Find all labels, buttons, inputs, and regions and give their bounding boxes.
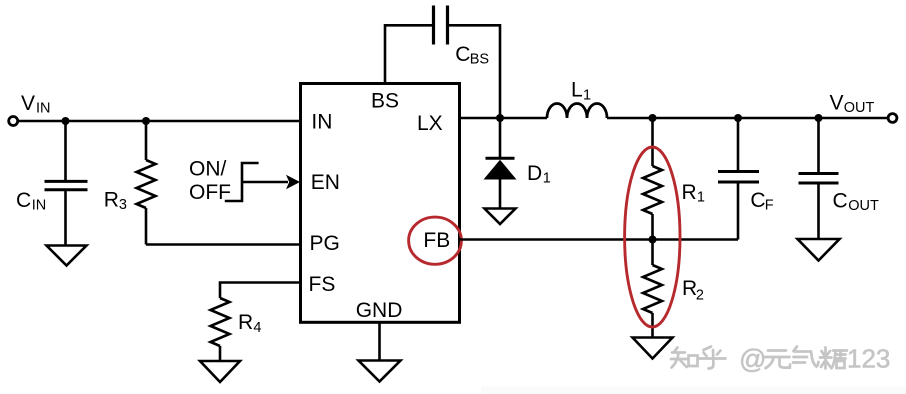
svg-text:1: 1: [583, 88, 591, 104]
svg-text:LX: LX: [417, 112, 443, 135]
svg-text:BS: BS: [470, 52, 489, 68]
svg-text:IN: IN: [32, 198, 47, 214]
wire FB net: [460, 238, 739, 241]
arrow into EN: [242, 175, 300, 189]
svg-text:EN: EN: [311, 171, 340, 194]
label VIN: [21, 92, 51, 117]
bottom-right faint strip: [481, 387, 906, 394]
resistor R3: [137, 121, 156, 245]
wire R3 to PG: [146, 243, 301, 246]
watermark zhihu: [671, 347, 847, 369]
ground under COUT: [798, 239, 840, 261]
svg-text:C: C: [16, 189, 31, 212]
glyph hu: [700, 347, 726, 369]
watermark at and 123: [739, 344, 890, 375]
label COUT: [833, 189, 879, 214]
svg-text:PG: PG: [310, 232, 340, 255]
label VOUT: [830, 92, 875, 117]
terminal VOUT: [888, 114, 897, 123]
red ellipse highlight around R1 R2: [625, 147, 680, 327]
svg-text:FS: FS: [309, 273, 336, 296]
label R3: [104, 188, 127, 213]
svg-text:1: 1: [697, 190, 705, 206]
label L1: [571, 79, 591, 104]
svg-text:123: 123: [847, 344, 890, 374]
node LX/D1/CBS: [496, 114, 504, 122]
svg-text:@: @: [739, 344, 766, 374]
svg-text:2: 2: [696, 287, 704, 303]
label CBS: [455, 43, 489, 67]
red circle highlight around FB: [409, 217, 462, 264]
svg-text:R: R: [104, 188, 119, 211]
svg-text:R: R: [682, 181, 697, 204]
svg-text:V: V: [21, 92, 35, 115]
svg-text:C: C: [750, 189, 765, 212]
wire FS pin: [220, 283, 301, 299]
wire GND pin: [378, 322, 381, 360]
node rail/R1: [649, 114, 657, 122]
IC U1 body: [301, 84, 460, 323]
svg-text:L: L: [571, 79, 583, 102]
svg-text:R: R: [682, 277, 697, 300]
svg-text:V: V: [830, 92, 844, 115]
svg-text:4: 4: [253, 320, 261, 336]
node junction VIN/R3: [142, 117, 150, 125]
glyph zhi: [671, 348, 687, 368]
svg-text:3: 3: [119, 197, 127, 213]
label CF: [750, 189, 773, 214]
glyph yuan: [765, 351, 791, 369]
svg-text:GND: GND: [356, 299, 403, 322]
wire input rail: [18, 120, 301, 123]
svg-text:IN: IN: [311, 111, 332, 134]
node rail/CF: [734, 114, 742, 122]
inductor L1: [547, 104, 607, 119]
ground under D1: [485, 209, 516, 225]
label D1: [527, 162, 551, 187]
label R4: [238, 311, 261, 336]
node rail/COUT: [815, 114, 823, 122]
capacitor CF: [718, 118, 759, 240]
svg-text:C: C: [833, 189, 848, 212]
glyph tang: [820, 348, 847, 369]
capacitor COUT: [799, 118, 839, 239]
svg-text:OUT: OUT: [844, 100, 875, 116]
ground under R4: [200, 361, 240, 382]
node junction VIN/CIN: [62, 117, 70, 125]
svg-text:BS: BS: [371, 90, 399, 113]
ground under R2: [633, 338, 673, 359]
ground under CIN: [47, 246, 87, 266]
resistor R4: [211, 298, 230, 361]
svg-text:OUT: OUT: [848, 198, 879, 214]
label R1: [682, 181, 705, 206]
svg-text:F: F: [765, 198, 774, 214]
svg-text:IN: IN: [36, 101, 51, 117]
terminal VIN: [9, 117, 18, 126]
wire output rail: [607, 117, 889, 120]
capacitor CBS: [434, 6, 448, 45]
step waveform symbol: [225, 163, 259, 201]
label CIN: [16, 189, 46, 214]
svg-text:FB: FB: [423, 229, 450, 252]
node FB/R1/R2: [649, 236, 657, 244]
capacitor CIN: [45, 121, 88, 245]
label ON/OFF: [189, 158, 231, 205]
wire BS to CBS: [385, 25, 432, 83]
wire CBS to LX node: [449, 25, 500, 118]
svg-text:OFF: OFF: [189, 181, 231, 204]
resistor R1: [643, 118, 662, 240]
svg-text:C: C: [455, 43, 470, 66]
label R2: [682, 277, 704, 303]
svg-text:1: 1: [543, 171, 551, 187]
glyph qi: [793, 347, 819, 367]
svg-text:R: R: [238, 311, 253, 334]
ground under GND: [359, 361, 401, 382]
wire LX rail: [460, 117, 548, 120]
resistor R2: [643, 240, 662, 338]
svg-text:D: D: [527, 162, 542, 185]
svg-text:ON/: ON/: [189, 158, 227, 181]
diode D1: [484, 118, 517, 208]
